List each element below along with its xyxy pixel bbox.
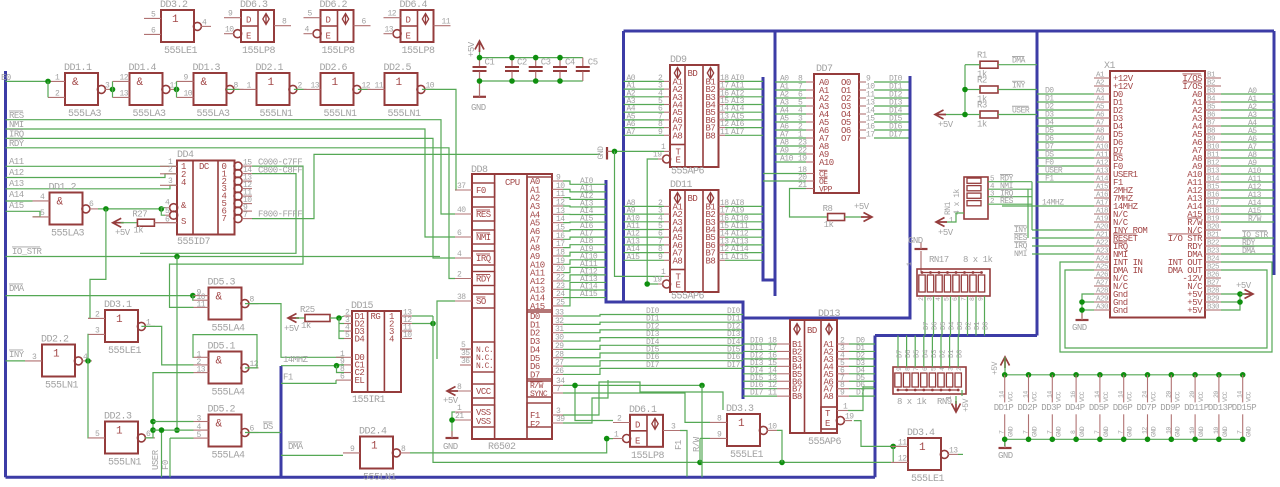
wire D6 X1 left [1037,141,1094,143]
svg-text:C4: C4 [565,58,575,68]
svg-text:GND: GND [1079,426,1086,437]
wire E0 to DD1.1 pin1 [6,80,49,82]
junction DD1.1 out [110,87,116,93]
svg-text:D4: D4 [922,349,930,358]
svg-text:B16: B16 [1207,192,1220,200]
enable pins DD13 [821,407,837,429]
svg-text:DS: DS [263,422,273,432]
wire D0 out of DD13 [849,343,875,345]
wire A8 X1 right [1221,157,1274,159]
svg-text:B6: B6 [1207,112,1216,120]
svg-text:A2: A2 [1096,80,1104,88]
wire A7 into DD9 [624,134,665,136]
pin A10 X1 [1094,149,1110,151]
wire DD1.2 out to DD3.1 pin2 [88,209,106,319]
svg-text:GND: GND [1222,426,1229,437]
wire A4 into DD7 [775,113,806,115]
svg-text:B9: B9 [1207,136,1215,144]
svg-text:A7: A7 [627,128,636,137]
svg-text:5: 5 [308,10,313,19]
svg-text:12: 12 [388,10,397,19]
svg-text:B14: B14 [1207,176,1220,184]
svg-text:B17: B17 [1207,200,1219,208]
svg-text:A17: A17 [1096,200,1108,208]
wire A10 into DD11 [624,221,665,223]
wire to DD5.2 pin4 [153,429,194,431]
svg-text:DD5P: DD5P [1089,403,1109,413]
pin A28 X1 [1094,293,1110,295]
wire A15 to DD1.2 pin5 [6,211,41,217]
wire A2 X1 right [1221,109,1274,111]
svg-text:10: 10 [1189,427,1196,434]
svg-text:VCC: VCC [1151,391,1158,402]
svg-text:14: 14 [999,391,1006,398]
svg-text:11: 11 [442,18,451,27]
svg-text:8: 8 [282,18,287,27]
wire AI8 [563,245,606,248]
svg-text:+5V: +5V [991,361,1000,375]
svg-text:555AP6: 555AP6 [671,292,705,303]
svg-text:+5V: +5V [1236,281,1252,291]
power pins DD4P [1073,372,1079,378]
svg-text:VPP: VPP [819,186,833,195]
svg-text:DD3P: DD3P [1041,403,1061,413]
bus AI address bus [606,180,743,399]
pin A17 X1 [1094,205,1110,207]
svg-text:D2: D2 [966,322,974,330]
svg-text:13: 13 [120,89,129,98]
svg-text:7: 7 [1023,430,1030,434]
svg-text:A20: A20 [1096,224,1109,232]
svg-text:F0: F0 [476,186,486,196]
svg-text:USER: USER [1012,107,1030,116]
junction DD1.4 out [174,87,180,93]
svg-text:DMA: DMA [9,284,25,294]
svg-text:VCC: VCC [1032,391,1039,402]
svg-text:RES: RES [476,210,491,220]
svg-text:+5V: +5V [962,398,971,412]
svg-text:5: 5 [944,297,951,301]
svg-text:5: 5 [95,430,100,439]
wire to DD4 pin5 [161,209,165,215]
svg-text:+5V: +5V [1187,306,1203,316]
wire CE from bus [763,173,806,175]
svg-text:R8: R8 [823,204,833,214]
wire pin9 down [699,438,701,462]
power pins DD13P [1216,372,1222,378]
pin VCC CPU [472,384,495,398]
svg-text:DI7: DI7 [889,131,903,140]
svg-text:GND: GND [1174,426,1181,437]
pin A8 X1 [1094,133,1110,135]
svg-text:DD9P: DD9P [1160,403,1180,413]
svg-text:IRQ: IRQ [476,254,491,264]
junction DD11 E [644,281,650,287]
wire DI6 into DD13 [743,388,777,390]
junction DD2.3 net pin4 [150,427,156,433]
svg-text:&: & [72,77,79,89]
svg-text:1: 1 [332,77,339,89]
svg-text:B8: B8 [706,131,716,141]
svg-text:555LN1: 555LN1 [45,381,79,392]
pin A27 X1 [1094,285,1110,287]
svg-text:1: 1 [661,268,666,277]
wire A14 X1 right [1221,205,1274,207]
wire gnd to DD9 T [612,150,664,152]
pin B20 X1 [1205,229,1221,231]
junction DD2.2 out [85,358,91,364]
svg-text:E: E [676,156,681,166]
wire A6 into DD9 [624,127,665,129]
wire AI5 out of DD9 [725,119,763,121]
junction DD3.4 pin11 [890,444,896,450]
svg-text:17: 17 [866,131,875,140]
wire A2 into DD7 [775,97,806,99]
pin A14 X1 [1094,181,1110,183]
svg-text:6: 6 [340,373,345,382]
svg-text:+5V: +5V [854,202,870,212]
supply +5V X1 [1242,290,1253,299]
svg-text:B1: B1 [1207,72,1216,80]
wire USER X1 left [1037,173,1094,175]
wire DI0 out of DD7 [874,81,909,83]
svg-text:13: 13 [949,446,958,455]
wire INY X1 left [1032,229,1094,231]
svg-text:A13: A13 [9,179,24,189]
svg-text:+5V: +5V [115,228,131,238]
svg-text:IO_STR: IO_STR [12,247,43,257]
wire A9 into DD7 [775,153,806,155]
wire D5 X1 left [1037,133,1094,135]
wire A13 into DD11 [624,244,665,246]
svg-text:3: 3 [927,297,934,301]
supply +5V power row [1001,357,1010,368]
svg-text:20: 20 [1189,391,1196,398]
svg-text:B10: B10 [1207,144,1220,152]
pin B4 X1 [1205,101,1221,103]
svg-text:B8: B8 [706,256,716,266]
svg-text:5: 5 [345,331,350,340]
wire chain [1027,189,1029,238]
svg-text:155LP8: 155LP8 [402,46,436,57]
svg-text:10: 10 [403,331,412,340]
svg-text:DD1P: DD1P [994,403,1014,413]
wire A10 X1 right [1221,173,1274,175]
wire AI2 out of DD9 [725,96,763,98]
wire R/W X1 right [1221,221,1274,223]
wire DI5 out of DD7 [874,121,909,123]
pin B17 X1 [1205,205,1221,207]
wire 5v2 [1221,301,1240,303]
svg-text:4: 4 [40,193,45,202]
wire D5 out of DD13 [849,380,875,382]
wire AI8 out of DD11 [725,205,763,207]
wire tie to D3 [339,330,344,332]
junction DD6.1 E [604,436,610,442]
wire F1 rip [680,431,687,477]
svg-text:21: 21 [455,412,464,421]
svg-text:4 x 1k: 4 x 1k [953,188,962,215]
svg-text:AI7: AI7 [731,128,745,137]
svg-text:555LA4: 555LA4 [212,388,246,399]
svg-text:C3: C3 [541,58,551,68]
svg-text:7: 7 [999,430,1006,434]
pin RDY CPU [472,272,495,286]
pin B5 X1 [1205,109,1221,111]
enable pins DD11 [670,269,685,271]
wire AI13 [563,282,606,289]
svg-text:5: 5 [930,367,937,371]
svg-text:20: 20 [1165,391,1172,398]
power pins DD11P [1192,372,1198,378]
svg-text:36: 36 [461,357,470,366]
wire E to DD3.4 pin11 [854,421,901,447]
pin A22 X1 [1094,245,1110,247]
svg-text:E: E [406,32,411,42]
svg-text:155LP8: 155LP8 [631,451,665,462]
pin B16 X1 [1205,197,1221,199]
svg-text:GND: GND [1055,426,1062,437]
svg-text:A10: A10 [780,155,794,164]
svg-text:GND: GND [1072,323,1087,333]
wire D2 out of DD13 [849,358,875,360]
svg-text:6: 6 [457,229,462,238]
wire DI3 long [563,338,743,341]
power pins DD5P [1097,372,1103,378]
svg-text:555LN1: 555LN1 [363,473,397,483]
wire R1 net [998,64,1037,66]
pin A29 X1 [1094,301,1110,303]
svg-text:A23: A23 [1096,248,1109,256]
svg-text:1: 1 [247,81,252,90]
svg-text:14: 14 [1046,391,1053,398]
wire F2 route [563,380,608,423]
wire A7 into DD7 [775,137,806,139]
wire DD3.1 out to DD5.1 pin2 [141,326,193,365]
svg-text:B18: B18 [1207,208,1219,216]
svg-text:1: 1 [371,441,378,453]
svg-text:A19: A19 [1096,216,1108,224]
svg-text:A22: A22 [1096,240,1108,248]
wire C000 select to DD5.3 pin11 [170,166,304,307]
junction DD9 T [612,149,618,155]
wire A12 X1 right [1221,189,1274,191]
wire F1 X1 left [1037,181,1094,183]
wire 5v to rail [1004,357,1006,375]
wire R2 net [998,89,1037,91]
capacitor C2 [511,58,513,67]
svg-text:14: 14 [1118,391,1125,398]
svg-text:C5: C5 [588,58,598,68]
svg-text:19: 19 [653,276,662,285]
svg-text:555ID7: 555ID7 [177,237,211,248]
svg-text:9: 9 [978,297,985,301]
pin A18 X1 [1094,213,1110,215]
pin B28 X1 [1205,293,1221,295]
svg-text:DD6P: DD6P [1113,403,1133,413]
svg-text:8 x 1k: 8 x 1k [963,255,993,265]
pin A3 X1 [1094,93,1110,95]
power pins DD6P [1121,372,1127,378]
svg-text:5: 5 [197,431,202,440]
wire IO_STR down [176,257,178,431]
power pins DD15P [1240,372,1246,378]
svg-text:B21: B21 [1207,232,1220,240]
svg-text:2: 2 [617,415,622,424]
svg-text:D3: D3 [931,349,939,358]
junction DD4 pin4/5 tie [159,206,165,212]
svg-text:555AP6: 555AP6 [808,437,842,448]
svg-text:14: 14 [1237,391,1244,398]
svg-text:1: 1 [919,442,926,454]
svg-text:20: 20 [1213,391,1220,398]
svg-text:B4: B4 [1207,96,1216,104]
wire A0 into DD9 [624,80,665,82]
svg-text:1: 1 [116,426,123,438]
svg-text:N.C.: N.C. [476,362,493,371]
pin B21 X1 [1205,237,1221,239]
wire A13 X1 right [1221,197,1274,199]
wire A0 X1 right [1221,93,1274,95]
svg-text:A4: A4 [1096,96,1105,104]
wire DI7 long [563,368,743,374]
svg-text:1: 1 [396,77,403,89]
svg-text:10: 10 [1165,427,1172,434]
wire OE to bus [763,180,806,182]
pin NMI CPU [472,230,495,244]
svg-text:7: 7 [243,211,248,220]
wire GND rail [1005,438,1243,440]
wire gnd2 [1082,301,1094,303]
resistor network RN9 [893,367,966,394]
svg-text:6: 6 [362,18,367,27]
svg-text:B27: B27 [1207,280,1219,288]
svg-text:9: 9 [228,10,233,19]
wire RN1 out 1 [988,188,1032,190]
svg-text:DMA: DMA [288,442,304,452]
wire USER rip [161,430,163,477]
svg-text:B15: B15 [1207,184,1220,192]
wire A1 into DD7 [775,89,806,91]
junction R25 tie [336,315,342,321]
pin B19 X1 [1205,221,1221,223]
wire RN17 pin 1 down [933,296,935,336]
wire pin9 in [700,437,710,439]
wire D2 X1 left [1037,109,1094,111]
wire to DD5.2 pin3 [153,421,194,423]
svg-text:555LN1: 555LN1 [324,109,358,120]
pin A7 X1 [1094,125,1110,127]
wire RDY down [1031,182,1033,230]
pin B27 X1 [1205,285,1221,287]
wire AI10 out of DD11 [725,221,763,223]
svg-text:1k: 1k [824,220,834,230]
wire DD2.6 out to DD2.5 [358,88,368,90]
svg-text:CPU: CPU [505,178,520,188]
wire F800 select [252,154,600,218]
svg-text:GND: GND [1008,426,1015,437]
pin IRQ CPU [472,251,495,265]
wire RN17 pin 7 down [984,296,986,336]
wire DI6 out of DD7 [874,129,909,131]
wire D4 X1 left [1037,125,1094,127]
svg-text:+5V: +5V [284,324,300,334]
pin B15 X1 [1205,189,1221,191]
svg-text:B5: B5 [1207,104,1216,112]
svg-text:A1: A1 [1096,72,1105,80]
pins D0-D7 CPU [527,312,552,379]
pin B11 X1 [1205,157,1221,159]
wire RW rip [701,385,703,477]
wire to row462 [892,446,894,462]
wire A5 X1 right [1221,133,1274,135]
pin B7 X1 [1205,125,1221,127]
wire D7 X1 left [1037,149,1094,151]
svg-text:INY: INY [1012,82,1026,91]
svg-text:1: 1 [614,431,619,440]
wire AI14 [563,290,606,298]
pin A4 X1 [1094,101,1110,103]
bus vertical DD7 frame [774,31,777,296]
svg-text:A15: A15 [9,201,24,211]
wire F0 to DD5.2 pin5 [170,437,194,439]
wire DMA to DD5.3 pin9 [6,295,194,297]
svg-text:12: 12 [898,454,907,463]
wire DI2 into DD13 [743,358,777,360]
wire RN9 pin 1 up [906,336,908,368]
pin VSS CPU [472,405,495,427]
pin B14 X1 [1205,181,1221,183]
svg-text:3: 3 [95,326,100,335]
svg-text:D6: D6 [932,321,940,330]
svg-text:DI7: DI7 [727,361,741,370]
pin A25 X1 [1094,269,1110,271]
svg-text:9: 9 [840,389,845,398]
wire DI7 into DD13 [743,395,777,397]
wire gnd3 [1082,309,1094,311]
svg-text:5: 5 [151,10,156,19]
svg-text:6: 6 [151,26,156,35]
wire R25 to DD15 D1 [330,316,344,318]
wire A12 to DD4 pin2 [6,174,178,178]
svg-text:D1: D1 [974,321,982,330]
svg-text:13: 13 [311,81,320,90]
pin B22 X1 [1205,245,1221,247]
bus vertical low D-bus [874,336,877,478]
svg-text:4: 4 [181,178,186,188]
wire AI11 [563,267,606,272]
pin A21 X1 [1094,237,1110,239]
power pins DD7P [1145,372,1151,378]
svg-text:B25: B25 [1207,264,1220,272]
svg-text:+5V: +5V [467,41,477,57]
svg-text:2: 2 [168,166,173,175]
wire DI3 into DD13 [743,365,777,367]
svg-text:A27: A27 [1096,280,1108,288]
svg-text:RN1: RN1 [944,201,953,215]
svg-text:1: 1 [172,14,179,26]
svg-text:24: 24 [1142,391,1149,398]
svg-text:D4: D4 [949,321,957,330]
svg-text:4: 4 [457,250,462,259]
svg-text:+5V: +5V [938,228,954,238]
svg-text:A28: A28 [1096,288,1108,296]
wire NMI X1 left [1032,253,1094,255]
svg-text:1: 1 [268,77,275,89]
wire AI5 [563,221,606,224]
pin B24 X1 [1205,261,1221,263]
svg-text:B11: B11 [1207,152,1220,160]
